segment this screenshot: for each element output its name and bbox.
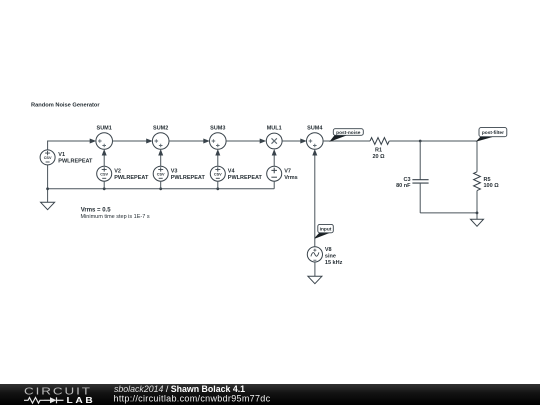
- wire SUM1 to SUM2: [112, 140, 147, 142]
- flag post-noise tail: [331, 135, 347, 141]
- svg-text:SUM3: SUM3: [210, 125, 225, 131]
- svg-text:V1: V1: [58, 152, 65, 158]
- node A junction: [419, 140, 422, 143]
- svg-text:C3: C3: [403, 177, 410, 183]
- voltage source V3: [153, 166, 168, 181]
- svg-text:LAB: LAB: [66, 396, 95, 405]
- svg-text:V2: V2: [114, 169, 121, 175]
- svg-text:PWLREPEAT: PWLREPEAT: [114, 175, 149, 181]
- wire SUM4 bottom input from V8: [314, 155, 316, 247]
- svg-text:Vrms = 0.5: Vrms = 0.5: [81, 207, 112, 213]
- voltage source V7: [267, 166, 282, 181]
- wire corner to R5: [476, 141, 478, 172]
- svg-text:CSV: CSV: [214, 173, 222, 177]
- wire V7 to MUL1: [273, 155, 275, 166]
- svg-text:V8: V8: [325, 247, 332, 253]
- svg-text:post-noise: post-noise: [336, 130, 361, 136]
- svg-text:SUM2: SUM2: [153, 125, 168, 131]
- flag input tail: [315, 233, 329, 239]
- svg-text:80 nF: 80 nF: [396, 183, 411, 189]
- svg-text:PWLREPEAT: PWLREPEAT: [58, 159, 93, 165]
- summer SUM1: [96, 133, 113, 150]
- svg-text:R5: R5: [484, 177, 491, 183]
- svg-text:PWLREPEAT: PWLREPEAT: [171, 175, 206, 181]
- svg-text:Random Noise Generator: Random Noise Generator: [31, 103, 100, 109]
- svg-text:15 kHz: 15 kHz: [325, 260, 343, 266]
- wire node A to C3: [419, 141, 421, 180]
- ground G3: [471, 219, 484, 226]
- svg-text:post-filter: post-filter: [482, 130, 504, 136]
- flag post-filter tail: [477, 137, 492, 141]
- svg-text:sine: sine: [325, 254, 336, 260]
- summer SUM3: [210, 133, 227, 150]
- svg-text:V4: V4: [228, 169, 236, 175]
- multiplier MUL1: [266, 133, 282, 149]
- flag input: [318, 224, 334, 232]
- ground G1 stem: [47, 189, 49, 203]
- wire C3 to bottom: [419, 183, 421, 213]
- svg-text:input: input: [320, 227, 332, 233]
- logo resistor-diode symbol: [24, 397, 64, 403]
- ground G2: [308, 276, 322, 283]
- svg-text:http://circuitlab.com/cnwbdr95: http://circuitlab.com/cnwbdr95m77dc: [114, 393, 271, 403]
- svg-text:SUM4: SUM4: [307, 125, 323, 131]
- resistor R5: [474, 172, 481, 191]
- wire V3 to bus: [160, 181, 162, 189]
- node junction V1-bus: [46, 187, 49, 190]
- svg-text:MUL1: MUL1: [267, 125, 282, 131]
- svg-text:PWLREPEAT: PWLREPEAT: [228, 175, 263, 181]
- wire SUM4 output to R1: [323, 140, 370, 142]
- voltage source V1: [40, 150, 55, 165]
- wire V1 bottom to bus: [47, 165, 49, 189]
- svg-text:CSV: CSV: [157, 173, 165, 177]
- wire R5 to bottom node: [476, 191, 478, 213]
- wire V2 to SUM1: [103, 155, 105, 166]
- svg-text:V7: V7: [284, 169, 291, 175]
- capacitor C3: [412, 180, 428, 183]
- resistor R1: [370, 138, 389, 145]
- wire V2 to bus: [103, 181, 105, 189]
- svg-text:SUM1: SUM1: [97, 125, 112, 131]
- svg-text:Minimum time step is 1E-7 s: Minimum time step is 1E-7 s: [81, 214, 150, 220]
- svg-text:CSV: CSV: [44, 156, 52, 160]
- arrowhead into SUM1: [90, 139, 97, 144]
- wire V3 to SUM2: [160, 155, 162, 166]
- svg-text:R1: R1: [375, 148, 382, 154]
- wire bottom C3 to R5: [420, 212, 477, 214]
- svg-text:V3: V3: [171, 169, 178, 175]
- wire SUM2 to SUM3: [169, 140, 204, 142]
- flag post-noise: [333, 129, 363, 136]
- node junction bottom: [476, 212, 479, 215]
- wire R1 to corner: [389, 140, 477, 142]
- wire bottom bus: [48, 188, 275, 190]
- voltage source V4: [210, 166, 225, 181]
- wire MUL1 to SUM4: [282, 140, 301, 142]
- node junction V4-bus: [216, 187, 219, 190]
- svg-text:CSV: CSV: [100, 173, 108, 177]
- node junction V3-bus: [159, 187, 162, 190]
- wire V4 to SUM3: [217, 155, 219, 166]
- wire SUM3 to MUL1: [226, 140, 260, 142]
- summer SUM2: [152, 133, 169, 150]
- voltage source V2: [97, 166, 112, 181]
- flag post-filter: [479, 128, 507, 137]
- svg-text:Vrms: Vrms: [284, 175, 297, 181]
- wire V8 to ground: [314, 262, 316, 276]
- svg-text:20 Ω: 20 Ω: [372, 154, 385, 160]
- svg-text:100 Ω: 100 Ω: [484, 183, 500, 189]
- summer SUM4: [307, 133, 324, 150]
- ground G3 stem: [476, 213, 478, 219]
- wire V1 top to row: [48, 141, 91, 150]
- wire V4 to bus: [217, 181, 219, 189]
- ground G1: [41, 202, 55, 209]
- voltage source V8 sine: [307, 247, 322, 262]
- wire V7 to bus: [273, 181, 275, 189]
- node junction V2-bus: [103, 187, 106, 190]
